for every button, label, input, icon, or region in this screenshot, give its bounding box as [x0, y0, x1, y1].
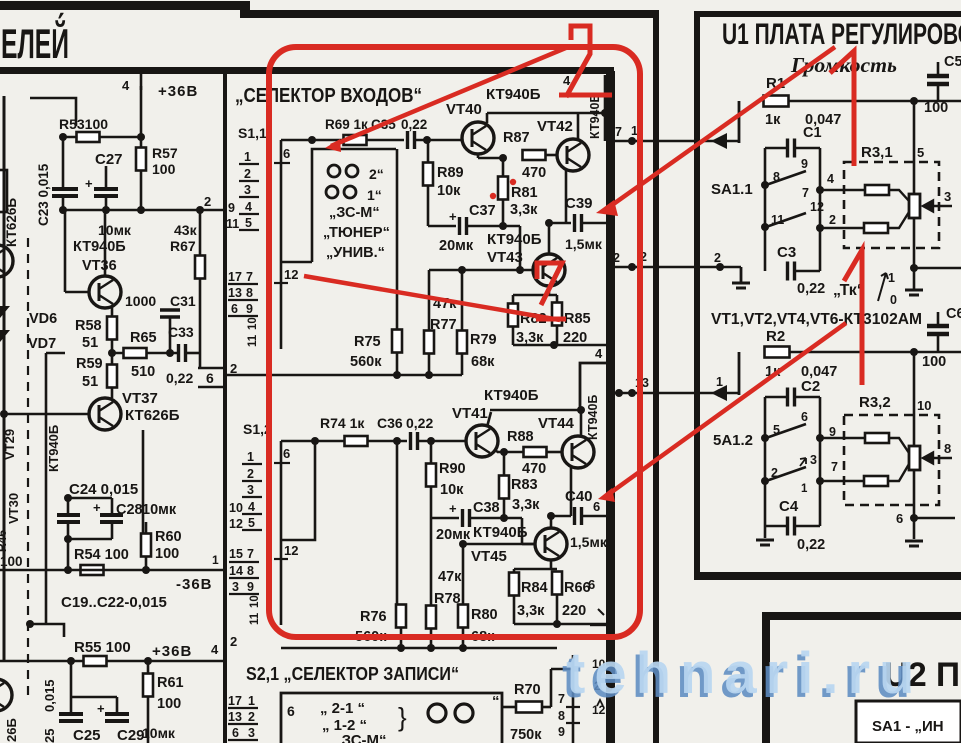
svg-text:26Б: 26Б [4, 718, 19, 742]
wire R85 top [556, 295, 559, 302]
svg-text:R74 1к: R74 1к [320, 415, 365, 431]
node dot 605,113 [601, 109, 609, 117]
wire R81 bottom [502, 199, 505, 226]
wire R88 to VT44 [547, 451, 562, 454]
svg-text:8: 8 [246, 286, 253, 300]
svg-text:С5: С5 [944, 54, 961, 70]
svg-text:SA1.1: SA1.1 [711, 181, 753, 198]
resistor R88 [524, 447, 547, 457]
svg-text:КТ626Б: КТ626Б [125, 407, 180, 424]
node dot SA1.1 left top [761, 181, 769, 189]
wire R82 R85 bottom [512, 326, 515, 345]
transistor VT45 [535, 528, 567, 560]
svg-text:4: 4 [827, 172, 834, 186]
node dot C31 [166, 349, 174, 357]
rail wire y393 [606, 392, 739, 395]
svg-text:14: 14 [229, 564, 243, 578]
transistor VT41 [466, 425, 498, 457]
svg-text:R60: R60 [155, 529, 182, 545]
resistor R1 [764, 96, 789, 107]
wire R84 top [513, 569, 516, 573]
black arrow on rail y393 [711, 385, 727, 401]
capacitor C40 [575, 507, 582, 525]
svg-text:1: 1 [212, 553, 219, 567]
wire R84 R66 bottom [513, 596, 516, 624]
svg-text:R81: R81 [511, 185, 538, 201]
svg-text:100: 100 [0, 554, 23, 569]
pot body R3.2 [909, 446, 920, 470]
svg-text:1: 1 [888, 271, 895, 285]
wire selector row y140 [281, 139, 343, 142]
wire VT42 collector [577, 113, 580, 140]
resistor R77 [424, 331, 434, 354]
rail jog to R2 [738, 352, 741, 395]
svg-text:C39: C39 [565, 195, 593, 212]
Tk arrow [878, 273, 888, 301]
inner note box [856, 701, 961, 743]
svg-text:“: “ [492, 693, 500, 710]
svg-text:470: 470 [522, 461, 546, 477]
svg-text:11: 11 [247, 334, 259, 347]
pin ladder S1.2 bars lower [229, 562, 259, 594]
wire R77 bottom [428, 354, 431, 375]
svg-text:2: 2 [248, 710, 255, 724]
wire C4 row left [765, 525, 786, 528]
node dot 397,441 [393, 437, 401, 445]
svg-text:КТ940Б: КТ940Б [586, 395, 600, 440]
node dot 557,624 [553, 620, 561, 628]
wire SA1.2 right vertical [819, 397, 822, 526]
capacitor C31 plates [160, 310, 180, 317]
svg-text:12: 12 [229, 517, 243, 531]
svg-text:4: 4 [211, 642, 219, 657]
bus wire +36V bottom [0, 660, 223, 663]
svg-text:9: 9 [228, 201, 235, 215]
svg-text:+: + [449, 501, 457, 516]
svg-text:1: 1 [631, 124, 638, 138]
wire C3 row right [796, 270, 820, 273]
transistor VT44 [562, 436, 594, 468]
svg-text:17: 17 [228, 270, 242, 284]
pot converge lines R3.1 [888, 190, 909, 228]
capacitor C3 [788, 262, 795, 281]
svg-text:КТ940Б: КТ940Б [484, 387, 539, 404]
svg-text:10: 10 [917, 398, 931, 413]
svg-text:КТ940Б: КТ940Б [46, 425, 61, 472]
svg-text:КТ940Б: КТ940Б [588, 94, 602, 139]
left sheet right border [653, 10, 659, 743]
transistor VT43 [533, 254, 565, 286]
wire R89 top [427, 140, 430, 163]
svg-text:4: 4 [122, 78, 130, 93]
wire R75 bottom [396, 353, 399, 375]
wire R3.2 stem bottom [913, 470, 916, 539]
svg-text:-36В: -36В [176, 576, 213, 593]
node dot VT37 base rail [0, 410, 8, 418]
U1 box left border [694, 11, 700, 578]
wire R1 row [788, 100, 961, 103]
node dot x30 [26, 620, 34, 628]
svg-text:12: 12 [810, 200, 824, 214]
node dot SA1.2 left bottom [761, 477, 769, 485]
node dot 504,518 [500, 514, 508, 522]
wire R78 bottom [430, 628, 433, 648]
svg-text:R83: R83 [511, 477, 538, 493]
svg-text:C19..C22-0,015: C19..C22-0,015 [61, 594, 167, 611]
svg-text:КТ626Б: КТ626Б [4, 198, 19, 247]
selector block right border [606, 71, 615, 743]
svg-text:R53100: R53100 [59, 116, 108, 132]
svg-text:R2: R2 [766, 328, 785, 345]
wire R74 to C36 [368, 440, 407, 443]
svg-text:6: 6 [231, 302, 238, 316]
record reels [428, 704, 446, 722]
wire S1.2 row y441 [281, 440, 344, 443]
svg-text:C29: C29 [117, 727, 145, 743]
wire VT40 emitter [477, 154, 480, 158]
node dot 551,516 [547, 512, 555, 520]
wire SA1.2 left vertical [764, 397, 767, 538]
svg-text:R54 100: R54 100 [74, 547, 129, 563]
node dot R58 R65 [108, 349, 116, 357]
node dot 632,393 [628, 389, 636, 397]
svg-text:R85: R85 [564, 311, 591, 327]
wire VT40 collector [486, 113, 489, 123]
svg-text:C3: C3 [777, 244, 796, 261]
wire R75 vertical [396, 149, 399, 330]
wire C2 row left [765, 396, 786, 399]
wire R77 top [428, 270, 431, 331]
capacitor C5 [927, 76, 949, 84]
svg-text:3,3к: 3,3к [512, 497, 540, 513]
capacitor C36 [411, 432, 418, 450]
node dot 462,270 [458, 266, 466, 274]
svg-text:R89: R89 [437, 165, 464, 181]
wire jog from dot [30, 624, 64, 637]
resistor R70 [516, 702, 542, 713]
svg-text:R90: R90 [439, 461, 466, 477]
svg-text:„ 2-1 “: „ 2-1 “ [320, 700, 365, 717]
svg-text:R69 1к: R69 1к [325, 117, 368, 132]
wire to R3.2 upper [820, 437, 864, 440]
svg-text:1: 1 [247, 450, 254, 464]
wire R60 top [145, 522, 148, 534]
wire C37 row [428, 225, 456, 228]
transistor KT626B lower-left (partial) [0, 679, 12, 711]
svg-text:tehnari.ru: tehnari.ru [566, 641, 924, 706]
svg-text:3: 3 [944, 189, 951, 204]
capacitor C24 plates [57, 515, 80, 522]
resistor R60 [141, 534, 151, 557]
svg-text:10к: 10к [437, 183, 461, 199]
tape source box outline [281, 149, 396, 262]
resistor R55 [84, 656, 107, 666]
rail wire y141 [606, 140, 739, 143]
svg-text:C1: C1 [803, 125, 822, 141]
svg-text:S2,1 „СЕЛЕКТОР ЗАПИСИ“: S2,1 „СЕЛЕКТОР ЗАПИСИ“ [246, 664, 459, 684]
svg-text:0,22: 0,22 [401, 117, 427, 132]
svg-text:5: 5 [917, 145, 924, 160]
node dot 520,270 [516, 266, 524, 274]
svg-text:6: 6 [287, 703, 295, 719]
svg-text:R57: R57 [152, 145, 178, 161]
wire VT43 base drop [519, 226, 522, 270]
node dot R88 left [500, 448, 508, 456]
svg-text:2: 2 [613, 251, 620, 265]
node dot 554,345 [550, 341, 558, 349]
resistor R65 [124, 348, 147, 358]
wire to R3.1 lower [820, 227, 864, 230]
svg-text:12: 12 [284, 267, 298, 282]
resistor R79 [457, 331, 467, 354]
tape reels row 2 [326, 186, 338, 198]
svg-text:2: 2 [771, 466, 778, 480]
svg-text:VD7: VD7 [28, 336, 56, 352]
red diagonal pin12 line [304, 276, 560, 320]
wire SA1.1 left vertical [764, 148, 767, 271]
svg-text:8: 8 [247, 564, 254, 578]
svg-text:6: 6 [206, 370, 214, 386]
wire y669 [551, 668, 573, 671]
ground SA1.2 [764, 526, 766, 538]
wire R2 row [790, 351, 961, 354]
svg-text:C36: C36 [377, 415, 403, 431]
wire pin12 vertical S1.2 [280, 540, 283, 625]
resistor R75 [392, 330, 402, 353]
svg-text:6: 6 [232, 726, 239, 740]
svg-text:C33: C33 [168, 324, 194, 340]
resistor R61 [143, 674, 153, 697]
svg-text:1: 1 [801, 483, 808, 495]
U1 box top border [694, 11, 961, 17]
svg-text:VT44: VT44 [538, 415, 575, 432]
capacitor C24 leads [67, 498, 70, 514]
wire R57 vertical [140, 86, 143, 209]
svg-text:100: 100 [922, 354, 946, 370]
wire R78 vertical [430, 518, 433, 606]
svg-text:220: 220 [562, 603, 586, 619]
transistor VT42 [557, 139, 589, 171]
sheet top bar main segment [240, 10, 659, 18]
node dot 315,441 [311, 437, 319, 445]
node dot SA1.2 left top [761, 434, 769, 442]
wire C24 loop top [68, 497, 112, 500]
svg-text:17: 17 [228, 694, 242, 708]
svg-text:U1 ПЛАТА РЕГУЛИРОВО: U1 ПЛАТА РЕГУЛИРОВО [722, 18, 961, 51]
wire to R3.1 upper [820, 189, 864, 192]
node dot 820,190 [816, 186, 824, 194]
bus wire bottom y648 [281, 647, 557, 650]
wire C1 row right [796, 147, 820, 150]
resistor R67 [195, 256, 205, 279]
node dot 463,544 [459, 540, 467, 548]
svg-text:R59: R59 [76, 356, 103, 372]
svg-text:2: 2 [204, 194, 211, 209]
svg-text:13: 13 [228, 710, 242, 724]
svg-text:8: 8 [558, 709, 565, 723]
svg-text:7: 7 [247, 547, 254, 561]
node dot bus 141 [137, 206, 145, 214]
bus wire -36V [0, 569, 223, 572]
svg-text:51: 51 [82, 374, 98, 390]
red dot near R87 [510, 179, 516, 185]
dashed box R3.1 [844, 162, 939, 248]
capacitor C23 plates [52, 189, 78, 196]
svg-text:„ТЮНЕР“: „ТЮНЕР“ [323, 225, 390, 241]
wire VT36 collector [104, 210, 107, 276]
wire R65 row [112, 352, 177, 355]
wire VT43 collector [548, 223, 551, 254]
U2 box left border [762, 612, 770, 743]
wire SA1.1 right vertical [819, 177, 822, 271]
svg-text:R78: R78 [434, 591, 461, 607]
svg-text:VT37: VT37 [122, 390, 158, 407]
resistor R66 [552, 572, 562, 595]
wire C39 out [582, 222, 606, 225]
svg-text:10: 10 [229, 501, 243, 515]
svg-text:7: 7 [615, 125, 622, 139]
svg-text:9: 9 [801, 157, 808, 171]
black arrow on rail y141 [711, 133, 727, 149]
wire VT37 emitter down [142, 430, 145, 534]
svg-text:10: 10 [249, 595, 261, 608]
resistor R3.1 upper half [865, 185, 889, 195]
node dot 914,518 [910, 514, 918, 522]
resistor R58 [107, 317, 117, 340]
pot arrow R3.2 [923, 453, 952, 464]
svg-text:1,5мк: 1,5мк [570, 534, 608, 550]
pin column line S2.1 [572, 655, 575, 743]
wire VT36 base [65, 291, 89, 294]
svg-text:R75: R75 [354, 334, 381, 350]
svg-text:1: 1 [716, 375, 723, 389]
node dot bus 463 [459, 644, 467, 652]
svg-text:КТ940Б: КТ940Б [486, 86, 541, 103]
svg-text:VT36: VT36 [82, 258, 117, 274]
resistor R78 [426, 606, 436, 629]
dashed box R3.2 [844, 415, 939, 505]
pin 12 tick S1.2 [274, 558, 288, 560]
wire pin6 vertical x281 [280, 140, 283, 349]
node dot 549,223 [545, 219, 553, 227]
wire to R3.2 lower [820, 480, 864, 483]
wire C24 loop bottom [68, 538, 112, 541]
wire emitter split [513, 294, 557, 297]
svg-text:6: 6 [283, 446, 290, 461]
tape reels row 1 [328, 165, 340, 177]
bus wire y375 [225, 374, 462, 377]
svg-text:100: 100 [155, 546, 179, 562]
wire R76 bottom [400, 628, 403, 648]
svg-text:470: 470 [522, 165, 546, 181]
wire R87 to VT42 [545, 154, 557, 157]
svg-text:5: 5 [245, 216, 252, 230]
svg-text:43к: 43к [174, 222, 198, 238]
svg-text:560к: 560к [350, 354, 382, 370]
wire C37 to VT43 base [467, 225, 520, 228]
ground at rail y267 [740, 267, 743, 282]
svg-text:25: 25 [42, 729, 57, 743]
wire C40 out [582, 515, 606, 518]
svg-text:12: 12 [284, 543, 298, 558]
svg-text:+: + [93, 500, 101, 515]
svg-text:1,5мк: 1,5мк [565, 236, 603, 252]
wire pin6 vertical S1.2 [280, 441, 283, 540]
svg-text:10к: 10к [440, 482, 464, 498]
pot arrow R3.1 [923, 201, 952, 212]
capacitor C29 plates [105, 714, 129, 721]
svg-text:10мк: 10мк [142, 725, 176, 741]
wire VT36 emitter [111, 306, 114, 318]
node dot R55 right [144, 657, 152, 665]
resistor R3.1 lower half [864, 223, 888, 233]
wire VT44 collector jog [580, 363, 606, 410]
transistor VT40 [462, 122, 494, 154]
wire C40 row [551, 515, 571, 518]
resistor at left edge [0, 170, 7, 212]
svg-text:VT40: VT40 [446, 101, 482, 118]
pin ladder S2.1 bars [228, 708, 258, 740]
ground R3.1 [905, 290, 923, 295]
svg-text:750к: 750к [510, 727, 542, 743]
svg-text:5А1.2: 5А1.2 [713, 432, 753, 449]
wire VT45 collector [550, 516, 553, 528]
node dot 503,226 [499, 222, 507, 230]
switch arm SA1.1 lower [766, 213, 806, 227]
wire x551 vertical [550, 669, 553, 707]
svg-text:+: + [85, 176, 93, 191]
wire R76 vertical [396, 441, 399, 605]
resistor R69 [344, 135, 367, 145]
switch arm SA1.2 upper [766, 424, 806, 438]
wire R79 bottom [461, 354, 464, 375]
svg-text:R58: R58 [75, 318, 102, 334]
resistor R59 [107, 365, 117, 388]
pin ladder bar 284 [228, 284, 258, 316]
tick border mid [598, 609, 604, 615]
node dot C24 top [64, 494, 72, 502]
node dot bus 106 [102, 206, 110, 214]
svg-text:3: 3 [247, 483, 254, 497]
svg-text:R3,1: R3,1 [861, 144, 893, 161]
wire R60 bottom [145, 557, 148, 570]
resistor R90 [426, 464, 436, 487]
wire R58-R59 junction [111, 339, 114, 366]
dash-dot separator line [27, 238, 29, 700]
switch arrow SA1.2 [800, 458, 806, 466]
wire C33 to R67 [186, 352, 200, 355]
rail wire y267 [606, 266, 741, 269]
tick arrow border [597, 700, 603, 706]
pin ladder S1.1 bars [239, 164, 259, 230]
svg-text:3,3к: 3,3к [510, 202, 538, 218]
svg-text:47к: 47к [438, 569, 462, 585]
svg-text:1000: 1000 [125, 293, 156, 309]
svg-text:C24 0,015: C24 0,015 [69, 481, 138, 498]
wire y268 right [914, 267, 961, 270]
svg-text:0,22: 0,22 [797, 537, 825, 553]
wire x605 vertical [604, 75, 607, 141]
pin box 6 lines [198, 368, 223, 387]
svg-text:C4: C4 [779, 498, 799, 515]
svg-text:+: + [449, 209, 457, 224]
U2 box top border [762, 612, 961, 620]
svg-text:15: 15 [229, 547, 243, 561]
svg-text:C37: C37 [469, 203, 496, 219]
capacitor C37 [460, 217, 467, 235]
node dot bus54 right [142, 566, 150, 574]
svg-text:3,3к: 3,3к [516, 330, 544, 346]
